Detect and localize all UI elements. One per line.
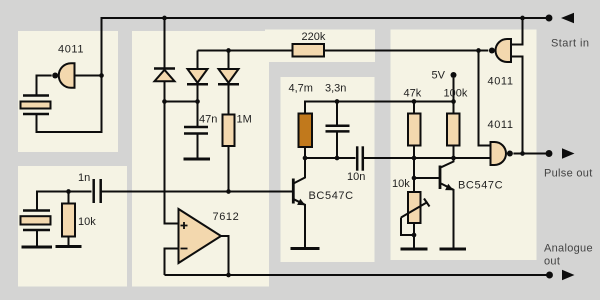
svg-text:4011: 4011 bbox=[58, 44, 84, 56]
junction dot 1M bottom bbox=[226, 189, 231, 194]
panel box B (sensor input) bbox=[18, 166, 127, 287]
capacitor 1n right plate bbox=[99, 179, 102, 203]
wire opamp output down to analogue line bbox=[221, 236, 229, 275]
svg-text:1n: 1n bbox=[78, 172, 90, 184]
wire 10n cap to gate U1C lower input bbox=[364, 157, 491, 159]
svg-text:4011: 4011 bbox=[488, 76, 514, 88]
supply terminal 5V bbox=[451, 72, 457, 78]
wire D1 bottom lead bbox=[164, 81, 166, 102]
svg-text:BC547C: BC547C bbox=[458, 180, 503, 192]
diode D2 bbox=[188, 69, 208, 83]
diode D1 cathode bar bbox=[154, 67, 175, 70]
wire clamp node to opamp + input bbox=[165, 102, 179, 224]
svg-text:47k: 47k bbox=[404, 88, 422, 100]
wire Q2 emitter bbox=[441, 184, 454, 249]
op-amp plus sign bbox=[181, 222, 188, 229]
transistor Q1 emitter arrow bbox=[297, 199, 305, 206]
wire D3 top lead bbox=[228, 51, 230, 70]
svg-text:3,3n: 3,3n bbox=[325, 83, 346, 95]
junction dot Q2 collector bbox=[451, 156, 456, 161]
ground X2 bbox=[22, 246, 53, 249]
svg-text:4,7m: 4,7m bbox=[289, 83, 313, 95]
wire R2 bottom lead bbox=[68, 237, 70, 247]
arrow Pulse out (right) bbox=[562, 148, 575, 159]
wire Q1 emitter bbox=[294, 199, 305, 247]
inductor L1 4,7m bbox=[299, 114, 313, 148]
wire D3 to 1M resistor bbox=[228, 85, 230, 115]
junction dot P1 wiper bbox=[412, 233, 417, 238]
crystal X1 top plate bbox=[23, 94, 49, 97]
svg-text:10k: 10k bbox=[392, 178, 410, 190]
terminal Pulse out bbox=[546, 150, 553, 157]
diode D2 cathode bar bbox=[187, 83, 208, 86]
panel box FG (bias + Q2 + gates) bbox=[391, 30, 537, 261]
junction dot pulse line to U1B input bbox=[520, 151, 525, 156]
transistor Q1 base bar bbox=[292, 179, 295, 204]
wire 100k top lead bbox=[453, 102, 455, 114]
diode D3 bbox=[219, 69, 239, 83]
panel box D (220k) bbox=[265, 30, 375, 63]
wire 3,3n top lead bbox=[336, 102, 338, 127]
panel box C (clamp + opamp) bbox=[132, 31, 269, 287]
junction dot Q2 base node bbox=[412, 176, 417, 181]
crystal X2 body bbox=[21, 216, 51, 224]
wire 47n top lead bbox=[197, 102, 199, 127]
panel box A (oscillator) bbox=[18, 31, 118, 152]
panel box E (filter + Q1) bbox=[281, 77, 375, 262]
svg-text:Analogue: Analogue bbox=[544, 243, 593, 255]
transistor Q2 base bar bbox=[439, 166, 442, 190]
preset P1 10k body bbox=[408, 192, 421, 223]
wire clamp node D1-D2 bbox=[165, 101, 198, 103]
wire P1 wiper loop bbox=[401, 218, 414, 236]
junction dot 220k line to U1C input bbox=[476, 48, 481, 53]
wire 3,3n bottom lead bbox=[336, 132, 338, 158]
diode D3 cathode bar bbox=[218, 83, 239, 86]
svg-text:7612: 7612 bbox=[213, 211, 240, 223]
crystal X2 top plate bbox=[23, 209, 50, 212]
wire analogue out line bbox=[165, 274, 550, 276]
resistor R2 10k bbox=[62, 204, 75, 237]
junction dot 3,3n bottom bbox=[335, 156, 340, 161]
capacitor 1n left plate bbox=[92, 179, 95, 203]
gate U1B output bubble bbox=[489, 48, 495, 54]
wire 47k node down to preset P1 bbox=[413, 158, 415, 192]
svg-text:1M: 1M bbox=[237, 114, 252, 126]
svg-text:220k: 220k bbox=[302, 31, 326, 43]
wire 47n bottom lead bbox=[197, 134, 199, 158]
wire P1 bottom lead bbox=[413, 223, 415, 249]
svg-text:BC547C: BC547C bbox=[309, 190, 354, 202]
svg-text:10n: 10n bbox=[347, 171, 365, 183]
svg-text:4011: 4011 bbox=[488, 119, 514, 131]
svg-text:Start in: Start in bbox=[551, 38, 589, 50]
wire emitter line Q1 node to 10n cap bbox=[305, 157, 356, 159]
junction dot 47k bottom bbox=[412, 156, 417, 161]
wire X2 bottom lead bbox=[36, 230, 38, 247]
svg-text:out: out bbox=[544, 256, 560, 268]
wire top bus from oscillator to Start in bbox=[37, 18, 550, 132]
junction dot L1 top rail bbox=[335, 99, 340, 104]
gate U1A (4011) bbox=[59, 63, 75, 88]
capacitor 3,3n bottom plate bbox=[326, 130, 350, 133]
arrow Analogue out (right) bbox=[562, 270, 575, 281]
capacitor 47n top plate bbox=[184, 126, 208, 129]
wire gate U1A input stub bbox=[75, 75, 102, 77]
wire signal line 1n cap to Q1 base bbox=[101, 191, 293, 193]
crystal X1 bottom plate bbox=[23, 113, 49, 116]
capacitor 3,3n top plate bbox=[326, 124, 350, 127]
junction dot R2 top bbox=[66, 189, 71, 194]
junction dot L1 bottom bbox=[303, 156, 308, 161]
resistor R5 100k bbox=[447, 114, 460, 146]
resistor R4 47k bbox=[408, 114, 421, 146]
diode D1 bbox=[155, 70, 175, 81]
terminal Analogue out bbox=[546, 272, 553, 279]
wire U1B upper input stub to start bus bbox=[511, 18, 523, 45]
wire U1A output to crystal X1 bbox=[37, 76, 52, 96]
wire box B: crystal X2 top to 1n cap bbox=[37, 192, 92, 211]
junction dot 47k top bbox=[412, 99, 417, 104]
svg-text:100k: 100k bbox=[444, 88, 468, 100]
wire D2 top lead from 220k line bbox=[197, 51, 199, 70]
resistor R1 220k bbox=[293, 44, 325, 57]
svg-text:47n: 47n bbox=[199, 114, 217, 126]
capacitor 47n bottom plate bbox=[184, 132, 208, 135]
ground 47n bbox=[184, 158, 211, 161]
wire L1 bottom lead bbox=[304, 147, 306, 158]
crystal X2 bottom plate bbox=[23, 229, 50, 232]
gate U1C output bubble bbox=[507, 151, 513, 157]
wire 1M bottom lead to signal line bbox=[228, 146, 230, 192]
junction dot analogue line bbox=[226, 273, 231, 278]
wire 47k top lead bbox=[413, 102, 415, 114]
wire Q1 collector bbox=[294, 158, 305, 183]
resistor R3 1M bbox=[223, 115, 235, 147]
op-amp U2 7612 bbox=[179, 209, 222, 263]
junction dot bus D1 bbox=[162, 16, 167, 21]
ground Q2 bbox=[440, 248, 467, 251]
capacitor 10n right plate bbox=[362, 146, 365, 170]
svg-text:10k: 10k bbox=[78, 216, 96, 228]
crystal X1 body bbox=[21, 102, 51, 109]
transistor Q2 emitter arrow bbox=[445, 184, 453, 190]
gate U1A output bubble bbox=[52, 73, 58, 79]
ground R2 bbox=[56, 245, 82, 248]
wire Q2 base bbox=[414, 177, 440, 179]
junction dot clamp D2 bbox=[195, 99, 200, 104]
wire U1C upper input from 220k line bbox=[479, 51, 491, 146]
svg-text:5V: 5V bbox=[432, 70, 446, 82]
ground Q1 bbox=[291, 247, 320, 250]
wire opamp feedback output to - input bbox=[165, 249, 179, 276]
junction dot gate U1A feedback bbox=[99, 73, 104, 78]
capacitor 10n left plate bbox=[356, 146, 359, 170]
wire 5V lead bbox=[453, 78, 455, 102]
wire diode D1 top lead bbox=[164, 18, 166, 69]
gate U1B (4011, mirrored) bbox=[496, 39, 512, 62]
junction dot bus to U1B input bbox=[520, 16, 525, 21]
wire U1B lower input stub to pulse line bbox=[511, 57, 523, 154]
junction dot 100k top bbox=[451, 99, 456, 104]
preset P1 arrow head dash bbox=[424, 199, 430, 207]
wire 220k line from D2 corner to gate U1B output bubble bbox=[198, 50, 489, 52]
preset P1 arrow diagonal bbox=[401, 202, 428, 218]
wire 47k bottom lead bbox=[413, 146, 415, 159]
junction dot clamp D1 bbox=[162, 99, 167, 104]
wire 10k R2 top lead bbox=[68, 192, 70, 204]
gate U1C (4011) bbox=[491, 142, 507, 165]
wire 100k bottom lead / Q2 collector bbox=[441, 146, 454, 168]
wire pulse out line bbox=[513, 153, 549, 155]
wire inductor L1 top to 5V rail bbox=[305, 102, 454, 114]
op-amp minus sign bbox=[181, 248, 188, 250]
wire D2 bottom lead bbox=[197, 85, 199, 102]
ground P1 bbox=[401, 248, 428, 251]
arrow Start in (left) bbox=[561, 13, 574, 24]
svg-text:Pulse out: Pulse out bbox=[544, 168, 593, 180]
terminal Start in bbox=[546, 15, 553, 22]
junction dot 220k line D3 bbox=[226, 48, 231, 53]
